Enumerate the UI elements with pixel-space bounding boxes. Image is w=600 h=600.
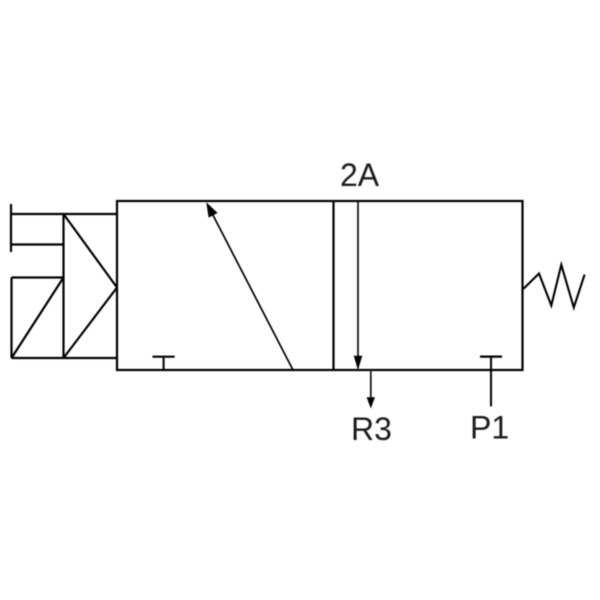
blocked port T (left position) bar (153, 356, 175, 358)
P1 port stem (490, 357, 492, 407)
blocked port T at P1 bar (480, 356, 502, 358)
solenoid coil box left edge (10, 278, 12, 359)
solenoid assembly bottom edge (12, 357, 118, 359)
terminal bar (electrical connection) (10, 204, 12, 252)
pilot chevron upper diagonal (64, 214, 118, 288)
pilot chevron lower diagonal (64, 288, 118, 359)
return spring (524, 265, 585, 308)
solenoid coil diagonal (12, 278, 64, 359)
svg-text:R3: R3 (351, 411, 392, 447)
exhaust arrow R3 head (367, 397, 375, 408)
valve position divider (332, 201, 334, 370)
blocked port T (left position) stem (163, 357, 165, 370)
valve body (117, 201, 523, 370)
wire: lower solenoid lead (10, 243, 64, 245)
wire: upper solenoid lead (10, 213, 117, 215)
svg-text:P1: P1 (470, 410, 509, 446)
solenoid actuator box divider (62, 214, 64, 358)
svg-text:2A: 2A (340, 157, 380, 193)
flow path arrow shaft 2A to R3 (right position) (357, 201, 359, 368)
flow path arrow shaft (left position) (209, 207, 294, 371)
exhaust arrow R3 shaft (370, 371, 372, 406)
flow path arrowhead (right position) (354, 356, 363, 370)
solenoid coil box top edge (12, 276, 64, 278)
flow path arrowhead (left position) (206, 202, 217, 217)
